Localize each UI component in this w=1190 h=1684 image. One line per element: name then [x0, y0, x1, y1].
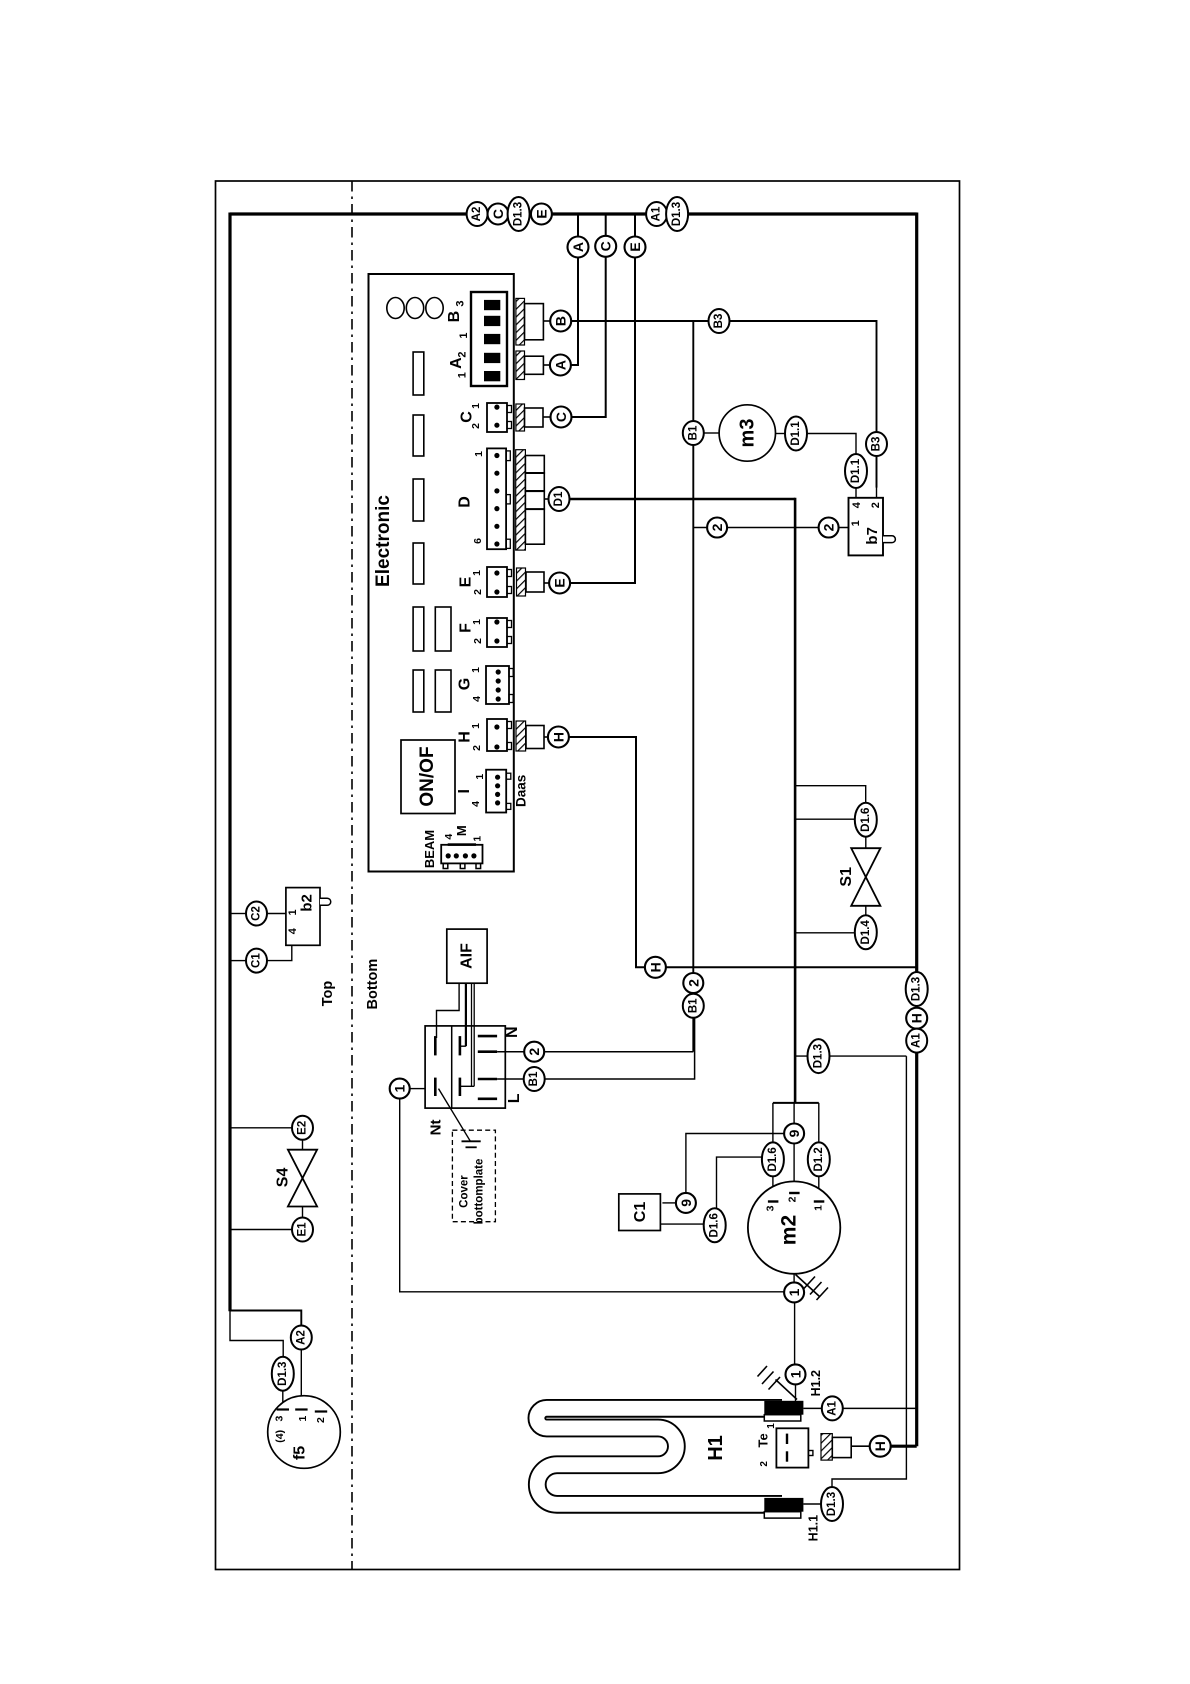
connector B mating hatch [516, 298, 525, 345]
svg-text:B3: B3 [871, 437, 883, 452]
m2 pin ticks [768, 1200, 779, 1202]
valve S4 [288, 1150, 317, 1207]
wire AIF pin1 to Nt [437, 983, 460, 1038]
Nt pin bars [478, 1035, 497, 1038]
node B3 on B wire [709, 309, 730, 333]
svg-text:C: C [459, 411, 476, 423]
svg-text:1: 1 [287, 909, 299, 915]
svg-text:1: 1 [456, 372, 468, 378]
svg-text:AIF: AIF [459, 943, 476, 969]
svg-text:H: H [872, 1441, 888, 1451]
wire S4 to E1 [302, 1207, 304, 1220]
node H on bundle [906, 1008, 927, 1029]
svg-text:S1: S1 [838, 867, 855, 887]
svg-text:2: 2 [685, 979, 701, 987]
svg-text:Top: Top [320, 981, 336, 1007]
wire S1 upper branch [795, 786, 866, 803]
wire D1.6 to S1 valve [865, 837, 867, 849]
svg-text:1: 1 [471, 570, 483, 576]
wire C2 to b2 [267, 913, 286, 915]
Nt contacts left [434, 1036, 437, 1055]
svg-text:A: A [552, 360, 568, 370]
ground at cover bottomplate [462, 1140, 481, 1142]
svg-text:1: 1 [392, 1084, 408, 1092]
svg-text:1: 1 [470, 723, 482, 729]
node D1.6 at S1 [855, 803, 877, 837]
connector H body [487, 719, 507, 751]
node A2 on top bus [467, 202, 488, 226]
svg-text:A1: A1 [651, 206, 663, 221]
svg-text:B1: B1 [687, 998, 699, 1013]
svg-text:Nt: Nt [427, 1119, 444, 1135]
svg-text:m2: m2 [778, 1215, 801, 1245]
stub D1 to D1.3 [795, 1055, 906, 1057]
node D1 connector [549, 487, 570, 511]
wire B to node [543, 320, 550, 322]
wire E1 branch [232, 1229, 293, 1231]
stub D1 to D1.4 [795, 932, 855, 934]
node A on drop wire [568, 237, 589, 258]
wire D1 to node [544, 498, 548, 500]
svg-text:H1.2: H1.2 [809, 1370, 823, 1396]
svg-text:E2: E2 [297, 1121, 309, 1135]
wire AIF pin3 into Nt [471, 983, 473, 1086]
node A connector [550, 355, 571, 376]
svg-text:6: 6 [472, 538, 484, 544]
wire B1 to m3 [704, 432, 719, 434]
wire A1 from heater [803, 1407, 821, 1409]
node 9 at m2 [784, 1124, 804, 1144]
capacitor C1 box [619, 1194, 661, 1231]
svg-text:B: B [446, 311, 463, 323]
svg-text:4: 4 [287, 927, 299, 934]
svg-text:H1.1: H1.1 [806, 1515, 820, 1541]
connector D mating hatch [516, 450, 526, 550]
node D1.3 at f5 [272, 1357, 294, 1391]
svg-text:E: E [458, 576, 475, 587]
wire 9 to C1 [686, 1134, 784, 1193]
node 2 at Nt [524, 1042, 544, 1062]
wire bundle A1/H/D1.3 right vertical [915, 213, 918, 1447]
svg-text:bottomplate: bottomplate [474, 1159, 486, 1225]
node D1.1 at b7 [845, 454, 867, 488]
svg-text:1: 1 [470, 667, 482, 673]
svg-text:C1: C1 [632, 1202, 649, 1223]
svg-text:D1.6: D1.6 [709, 1213, 721, 1237]
svg-text:D1.6: D1.6 [860, 808, 872, 832]
mains filter AIF box [447, 929, 487, 983]
connector A mating hatch [516, 351, 525, 380]
wire Te to H node [851, 1445, 869, 1447]
wire D1.3 to H1.1 [803, 1503, 821, 1505]
svg-text:G: G [457, 678, 474, 690]
svg-text:1: 1 [297, 1416, 309, 1422]
wire D1 horizontal [570, 498, 796, 501]
connector F body [487, 618, 507, 647]
connector B/A body [471, 292, 507, 386]
svg-text:E: E [627, 242, 643, 251]
jumper slots column 2 [435, 607, 451, 651]
svg-text:1: 1 [786, 1288, 802, 1296]
svg-text:D1.6: D1.6 [767, 1147, 779, 1171]
svg-text:1: 1 [813, 1205, 825, 1211]
node B connector [550, 311, 571, 332]
svg-text:C: C [553, 412, 569, 422]
relay b7 box [849, 498, 884, 556]
svg-text:B3: B3 [713, 314, 725, 329]
connector M BEAM body [441, 845, 482, 864]
wire C2 branch [232, 913, 247, 915]
svg-text:C: C [490, 209, 506, 219]
svg-text:1: 1 [458, 332, 470, 338]
connector D body [487, 448, 506, 549]
svg-text:2: 2 [709, 523, 725, 531]
wire A1 to bundle [843, 1407, 917, 1409]
svg-text:D1.1: D1.1 [790, 421, 802, 446]
wire A drop [571, 214, 578, 365]
Te contacts [786, 1434, 788, 1444]
node E connector [549, 573, 570, 594]
svg-text:Daas: Daas [513, 775, 528, 807]
ground chassis at heater [776, 1380, 798, 1400]
wire D1 fork bar [773, 1102, 819, 1104]
wire D1.3 branch [230, 1311, 283, 1357]
wire A2 to f5 [300, 1350, 302, 1410]
svg-text:D1.3: D1.3 [671, 202, 683, 226]
svg-text:D1.3: D1.3 [826, 1492, 838, 1516]
svg-text:E: E [533, 209, 549, 218]
svg-text:C2: C2 [251, 906, 263, 921]
Nt divider [451, 1026, 453, 1108]
svg-text:2: 2 [472, 638, 484, 644]
wire D1.2 to m2 pin1 [818, 1176, 820, 1201]
svg-text:4: 4 [471, 696, 483, 702]
b2 stub [320, 898, 331, 905]
svg-text:H: H [550, 732, 566, 742]
wire 1 to Nt [410, 1088, 425, 1090]
node D1.6 at C1 [704, 1208, 726, 1242]
node D1.3 on top bus [508, 197, 530, 231]
Te stub [808, 1451, 813, 1456]
b7 actuator stub [883, 536, 895, 543]
connector M prongs [443, 863, 448, 868]
wire C1 to b2 pin4 [267, 945, 292, 960]
svg-text:D1.3: D1.3 [513, 202, 525, 226]
ground chassis at m2 [796, 1275, 820, 1297]
svg-text:M: M [454, 825, 469, 836]
wire D1 vertical [794, 498, 797, 1103]
wire 9 to m2 pin2 [793, 1144, 795, 1193]
svg-text:N: N [504, 1026, 521, 1038]
svg-text:1: 1 [850, 520, 862, 526]
interference suppressor f5 [268, 1396, 341, 1469]
node D1.3 at heater [821, 1487, 843, 1521]
node 2 right [819, 518, 839, 538]
node E on top bus [531, 204, 552, 225]
connector C mating hatch [516, 404, 525, 431]
svg-text:1: 1 [788, 1370, 804, 1378]
svg-text:Cover: Cover [459, 1175, 471, 1208]
wire B to b7 pin2 [571, 321, 876, 488]
wire AIF pin4 into Nt [473, 983, 475, 1086]
border frame [216, 181, 960, 1570]
wire D1.3 to f5 [282, 1391, 284, 1409]
node H connector [548, 727, 569, 748]
wire B1 vertical [692, 321, 694, 1052]
svg-text:D1: D1 [553, 491, 565, 506]
svg-text:D1.3: D1.3 [813, 1044, 825, 1068]
node D1.2 at m2 [808, 1142, 830, 1176]
node C1 node [246, 949, 267, 973]
heating element H1 meander [537, 1408, 782, 1504]
svg-text:D1.2: D1.2 [813, 1147, 825, 1171]
wire D1.1 to b7 pin4 [807, 434, 856, 455]
svg-text:1: 1 [472, 836, 484, 842]
node A1 at heater [822, 1396, 843, 1420]
svg-text:C1: C1 [251, 953, 263, 968]
wire D1.6 link to D1.6 [717, 1157, 762, 1208]
wire m3 to D1.1 [776, 433, 786, 435]
wire E2 branch [232, 1127, 293, 1129]
wire C to node [543, 416, 551, 418]
svg-text:D1.1: D1.1 [850, 458, 862, 483]
ON/OF box [401, 740, 455, 814]
svg-text:1: 1 [766, 1423, 777, 1429]
wire A to node [543, 364, 550, 366]
svg-text:D1.4: D1.4 [860, 920, 872, 945]
mains terminal Nt box [425, 1026, 505, 1108]
wire A2 branch [230, 1311, 301, 1328]
connector I body [486, 770, 506, 813]
connector C body [487, 403, 507, 432]
svg-text:H1: H1 [705, 1435, 727, 1461]
svg-text:A1: A1 [911, 1033, 923, 1048]
node H mid [645, 957, 666, 978]
svg-text:BEAM: BEAM [422, 830, 437, 868]
node C on drop wire [595, 236, 616, 257]
svg-text:A: A [570, 242, 586, 252]
wire D1.3 down to heater [832, 1056, 906, 1487]
node E on drop wire [625, 237, 646, 258]
node C connector [551, 407, 572, 428]
wire H to bundle [891, 1445, 917, 1448]
wire H connector to bus [569, 737, 917, 967]
node C2 [246, 902, 267, 926]
motor m2 [748, 1181, 840, 1273]
svg-text:2: 2 [315, 1417, 327, 1423]
svg-text:3: 3 [273, 1416, 285, 1422]
thermostat Te box [776, 1428, 808, 1467]
svg-text:4: 4 [470, 801, 482, 807]
wire AIF pin2 into Nt [465, 983, 467, 1046]
svg-text:I: I [456, 789, 473, 793]
node 2 left [707, 518, 727, 538]
wire B1 from Nt [497, 1017, 694, 1080]
node D1.6 at m2 [762, 1142, 784, 1176]
node D1.3 on top bus (right) [666, 197, 688, 231]
wire 1 from Nt [400, 1099, 784, 1292]
svg-text:1: 1 [470, 403, 482, 409]
svg-text:2: 2 [821, 523, 837, 531]
node C on top bus [488, 204, 509, 225]
node E2 [292, 1116, 313, 1140]
svg-text:1: 1 [471, 619, 483, 625]
relay b2 box [286, 888, 320, 946]
wire fork right to D1.2 [818, 1103, 820, 1143]
svg-text:2: 2 [870, 502, 882, 508]
wire E to node [544, 582, 549, 584]
svg-text:2: 2 [786, 1196, 798, 1202]
svg-text:(4): (4) [274, 1430, 286, 1443]
svg-text:D1.3: D1.3 [277, 1362, 289, 1386]
node D1.1 at m3 [785, 417, 807, 451]
wire D1.6 to m2 pin3 [772, 1176, 774, 1201]
f5 pin ticks [277, 1408, 289, 1410]
Te mating hatch [821, 1434, 832, 1461]
wire 2-2 to b7 pin1 [693, 527, 848, 529]
svg-text:2: 2 [759, 1461, 770, 1467]
heater terminal H1.2 [764, 1401, 803, 1415]
node A2 at f5 [291, 1326, 312, 1350]
svg-text:D1.3: D1.3 [911, 977, 923, 1001]
svg-text:f5: f5 [291, 1446, 308, 1460]
node 2 on riser [683, 973, 703, 993]
node D1.3 on bundle [906, 972, 928, 1006]
svg-text:C: C [598, 241, 614, 251]
svg-text:2: 2 [470, 423, 482, 429]
svg-text:A1: A1 [826, 1400, 838, 1415]
svg-text:3: 3 [765, 1205, 777, 1211]
svg-text:Electronic: Electronic [373, 495, 394, 587]
node H at Te [870, 1436, 891, 1457]
connector E body [487, 567, 507, 597]
connector G body [486, 666, 509, 704]
svg-text:B1: B1 [687, 425, 699, 440]
svg-text:2: 2 [526, 1048, 542, 1056]
node B1 on riser [683, 994, 704, 1018]
wire 2 from Nt [497, 1051, 693, 1053]
node D1.3 stub [808, 1039, 830, 1073]
wire C1 branch [232, 960, 247, 962]
svg-text:3: 3 [455, 301, 467, 307]
svg-text:A2: A2 [471, 207, 483, 222]
Top/Bottom separator dash-dot line [351, 181, 353, 1570]
Cover bottomplate dashed box [452, 1130, 495, 1222]
svg-text:m3: m3 [736, 419, 758, 448]
node A1 on bundle [906, 1029, 927, 1053]
wire fork left to D1.6 [772, 1103, 774, 1143]
stub D1 to D1.6 [795, 818, 855, 820]
node B1 on vertical [683, 421, 704, 445]
svg-text:E1: E1 [297, 1222, 309, 1237]
svg-text:H: H [909, 1013, 925, 1023]
svg-text:b2: b2 [299, 894, 316, 912]
node 1 at Nt [390, 1079, 410, 1099]
connector E mating hatch [517, 568, 526, 596]
svg-text:E: E [552, 578, 568, 587]
node B1 at Nt [524, 1067, 545, 1091]
svg-text:b7: b7 [864, 527, 881, 545]
svg-text:4: 4 [851, 501, 863, 508]
node E1 [292, 1218, 313, 1242]
wire L left bus [228, 213, 231, 1312]
wire H to node [544, 736, 548, 738]
svg-text:ON/OF: ON/OF [417, 746, 438, 806]
heater terminal H1.1 [764, 1498, 803, 1512]
svg-text:1: 1 [473, 451, 485, 457]
node D1.4 at S1 [855, 915, 877, 949]
wire C drop [572, 214, 606, 417]
node A1 on top bus [646, 202, 667, 226]
indicator lamps OOO [387, 298, 404, 319]
motor m3 [719, 405, 775, 461]
svg-text:9: 9 [786, 1129, 802, 1137]
node B3 at b7 [866, 432, 887, 456]
svg-text:9: 9 [678, 1199, 694, 1207]
jumper slots column 1 [413, 352, 424, 395]
valve S1 [851, 848, 880, 906]
connector H mating hatch [516, 721, 526, 751]
wire S1 to D1.4 [865, 906, 867, 916]
node 1 at heater [786, 1364, 806, 1384]
wire 1 down to heater [794, 1303, 796, 1365]
svg-text:A2: A2 [295, 1330, 307, 1345]
wire E2 to S4 [302, 1140, 304, 1150]
wire fork mid to 9 [793, 1103, 795, 1124]
svg-text:L: L [506, 1093, 523, 1103]
node 9 at C1 [676, 1193, 696, 1213]
wire E drop [570, 214, 635, 583]
svg-text:H: H [457, 731, 474, 743]
svg-text:B1: B1 [528, 1071, 540, 1086]
svg-text:2: 2 [472, 589, 484, 595]
svg-text:2: 2 [471, 745, 483, 751]
svg-text:Bottom: Bottom [365, 959, 381, 1010]
svg-text:1: 1 [474, 774, 486, 780]
svg-text:S4: S4 [275, 1168, 292, 1188]
svg-text:A: A [448, 357, 465, 369]
wire L top bus [230, 212, 917, 215]
wire C1 to D1.6 [660, 1223, 703, 1225]
wire C1 to 9 [662, 1202, 675, 1204]
Electronic control unit box [369, 274, 514, 872]
Nt switch diagonal to ground [439, 1089, 471, 1142]
svg-text:D: D [457, 496, 474, 508]
svg-text:Te: Te [756, 1433, 771, 1447]
svg-text:2: 2 [456, 351, 468, 357]
wire 1 to heater terminal [795, 1385, 797, 1402]
svg-text:B: B [553, 316, 569, 326]
svg-text:H: H [647, 962, 663, 972]
Nt contacts inner [459, 1036, 462, 1055]
node 1 below m2 [784, 1282, 804, 1302]
